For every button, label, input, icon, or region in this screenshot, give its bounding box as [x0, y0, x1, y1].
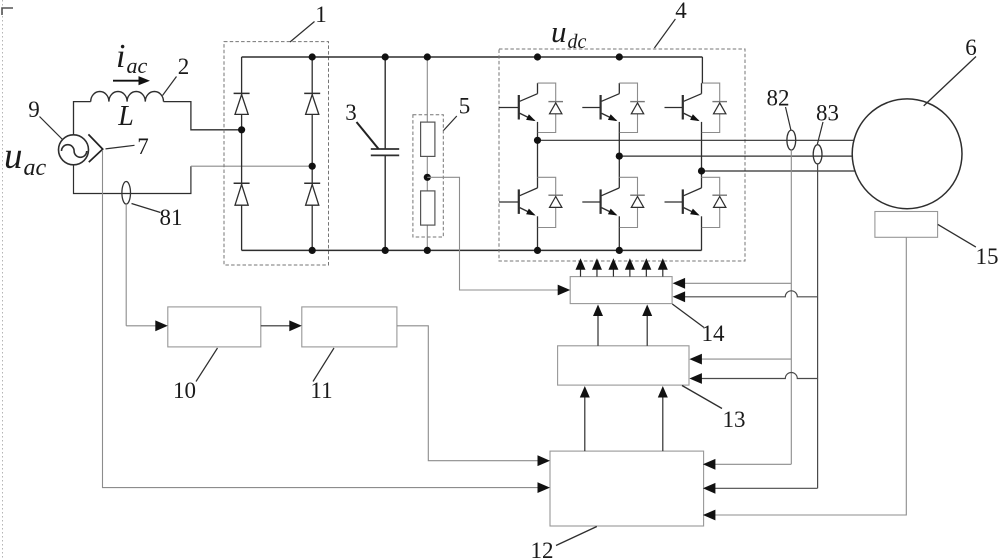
wire block 13 to block 14 (right) — [642, 305, 652, 346]
diode D2 (left bottom) — [234, 183, 250, 205]
svg-text:12: 12 — [531, 538, 554, 560]
wire source-top to inductor — [74, 102, 91, 135]
wire sensor 82 trunk — [790, 150, 792, 464]
wire encoder 15 to block 12 — [703, 237, 906, 520]
label 14 — [702, 321, 726, 346]
node bus+ leg B — [616, 53, 623, 60]
phase C output wire — [702, 170, 856, 172]
phase A output wire — [538, 139, 854, 141]
node bus- leg B — [616, 247, 623, 254]
svg-text:9: 9 — [28, 97, 40, 122]
svg-text:13: 13 — [723, 407, 746, 432]
wire block 11 to block 12 — [397, 326, 550, 466]
label 7 — [137, 134, 149, 159]
node divider bottom — [424, 247, 431, 254]
node bridge upper input — [238, 126, 245, 133]
wire block 12 to block 13 (left) — [580, 386, 590, 451]
label 82 — [767, 86, 790, 111]
leader line 14 — [672, 304, 704, 328]
svg-text:7: 7 — [137, 134, 149, 159]
node bridge lower input — [309, 163, 316, 170]
diode D4 (right bottom) — [304, 183, 320, 205]
svg-text:4: 4 — [675, 0, 687, 23]
IGBT Q4 (phase B low side) — [582, 177, 645, 227]
capacitor C3 top lead — [384, 57, 386, 149]
wire leg C midpoint — [701, 133, 703, 178]
label 5 — [459, 94, 471, 119]
label 3 — [345, 100, 357, 125]
label 9 — [28, 97, 40, 122]
wire block 13 to block 14 (left) — [593, 305, 603, 346]
label 15 — [976, 244, 999, 269]
svg-text:L: L — [117, 101, 134, 132]
svg-text:5: 5 — [459, 94, 471, 119]
node bus- at bridge — [309, 247, 316, 254]
dc bus negative rail — [242, 249, 702, 251]
wire sensor 83 to block 12 — [703, 483, 818, 494]
diode D1 (left top) — [234, 93, 250, 114]
label 10 — [173, 378, 196, 403]
block 11 — [302, 307, 397, 347]
node bus+ leg A — [534, 53, 541, 60]
label 4 — [675, 0, 687, 23]
voltage sensor 7 (chevron) — [88, 134, 102, 162]
block 14 — [570, 277, 672, 304]
current sensor 83 (ellipse) — [813, 145, 822, 164]
wire sensor 83 to block 13 (hop over 82 line) — [689, 373, 817, 384]
dashed box 5 (voltage divider) — [413, 115, 443, 237]
svg-text:14: 14 — [702, 321, 726, 346]
svg-text:1: 1 — [315, 2, 327, 27]
IGBT Q1 (phase A high side) — [499, 83, 563, 132]
label L — [117, 101, 134, 132]
leader line 7 — [106, 145, 135, 149]
encoder box 15 — [875, 212, 938, 238]
label 12 — [531, 538, 554, 560]
leader line 83 — [817, 122, 823, 144]
leader line 81 — [132, 204, 161, 213]
resistor R1 (upper) — [421, 122, 435, 156]
label 1 — [315, 2, 327, 27]
wire leg A to negative bus — [537, 228, 539, 251]
capacitor C3 plates — [371, 149, 399, 155]
leg C top corner wire — [701, 57, 703, 83]
wire inductor to rectifier input — [164, 102, 242, 130]
label 83 — [816, 101, 839, 126]
dashed box 4 (inverter) — [499, 49, 745, 261]
leader line 4 — [654, 19, 675, 48]
capacitor C3 bottom lead — [384, 155, 386, 250]
leader line 12 — [556, 527, 597, 546]
IGBT Q2 (phase A low side) — [499, 177, 563, 227]
AC source V1 — [59, 135, 89, 165]
leader line 3 — [357, 122, 379, 149]
bridge right column wire — [311, 57, 313, 250]
wire divider midpoint to block 14 — [427, 177, 570, 295]
IGBT Q5 (phase C high side) — [665, 83, 728, 132]
svg-text:6: 6 — [965, 35, 977, 60]
wire source-bottom — [74, 165, 191, 194]
wire leg A midpoint — [537, 133, 539, 178]
AC source sine wave — [62, 145, 87, 158]
leader line 6 — [924, 57, 976, 106]
label u_dc — [551, 14, 587, 53]
svg-text:15: 15 — [976, 244, 999, 269]
wire sensor 83 trunk — [817, 164, 819, 488]
current sensor 82 (ellipse) — [787, 130, 796, 150]
node bus+ at bridge — [309, 53, 316, 60]
current direction arrow i_ac — [113, 76, 150, 85]
leader line 13 — [682, 386, 722, 409]
svg-text:82: 82 — [767, 86, 790, 111]
wire to bridge lower input — [191, 165, 312, 167]
wire block 12 to block 13 (right) — [658, 386, 668, 451]
node phase B — [616, 153, 623, 160]
resistor R2 (lower) — [421, 191, 435, 225]
wire leg B to negative bus — [618, 228, 620, 251]
wire sensor 82 to block 13 — [689, 354, 791, 365]
leader line 11 — [313, 348, 334, 382]
leader line 5 — [444, 116, 457, 131]
inductor L2 (coil) — [91, 91, 164, 101]
divider wire — [426, 57, 428, 250]
diode D3 (right top) — [304, 93, 320, 114]
leader line 82 — [786, 107, 792, 131]
node divider mid — [424, 174, 431, 181]
scan artifact corner mark — [2, 8, 13, 15]
svg-text:11: 11 — [310, 378, 332, 403]
current sensor 81 (ellipse) — [122, 182, 131, 205]
label 6 — [965, 35, 977, 60]
node C3 bottom — [382, 247, 389, 254]
label 81 — [160, 205, 183, 230]
gate drive arrows block 14 to inverter — [576, 258, 668, 276]
block 13 — [558, 346, 689, 385]
node C3 top — [382, 53, 389, 60]
label 11 — [310, 378, 332, 403]
label u_ac — [4, 136, 47, 181]
leader line 2 — [163, 77, 177, 96]
node bus- leg A — [534, 247, 541, 254]
wire voltage sensor 7 to block 12 — [103, 150, 551, 493]
block 12 — [550, 451, 704, 526]
svg-text:3: 3 — [345, 100, 357, 125]
wire sensor 81 to block 10 — [126, 204, 168, 331]
wire sensor 83 to block 14 (hop over 82 line) — [673, 291, 818, 302]
label i_ac — [116, 38, 147, 78]
svg-text:81: 81 — [160, 205, 183, 230]
leader line 9 — [40, 117, 63, 140]
label 13 — [723, 407, 746, 432]
node phase A — [534, 137, 541, 144]
dashed box 1 (rectifier) — [224, 42, 329, 265]
phase B output wire — [619, 155, 852, 157]
svg-text:2: 2 — [178, 54, 190, 79]
label 2 — [178, 54, 190, 79]
scan artifact dotted edge line — [2, 0, 4, 560]
IGBT Q6 (phase C low side) — [665, 177, 728, 227]
block 10 — [168, 307, 261, 347]
dc bus positive rail — [242, 56, 703, 58]
svg-text:10: 10 — [173, 378, 196, 403]
bridge left column wire — [241, 57, 243, 250]
wire sensor 82 to block 14 — [673, 278, 792, 289]
wire leg C to negative bus — [701, 228, 703, 251]
leader line 15 — [938, 224, 976, 247]
svg-text:83: 83 — [816, 101, 839, 126]
IGBT Q3 (phase B high side) — [582, 83, 645, 132]
node divider top — [424, 53, 431, 60]
wire leg B midpoint — [618, 133, 620, 178]
wire sensor 82 to block 12 — [703, 459, 791, 470]
leader line 1 — [290, 22, 315, 43]
motor 6 (circle) — [852, 99, 962, 209]
leader line 10 — [196, 348, 218, 382]
wire block 10 to block 11 — [261, 320, 302, 331]
node phase C — [698, 167, 705, 174]
